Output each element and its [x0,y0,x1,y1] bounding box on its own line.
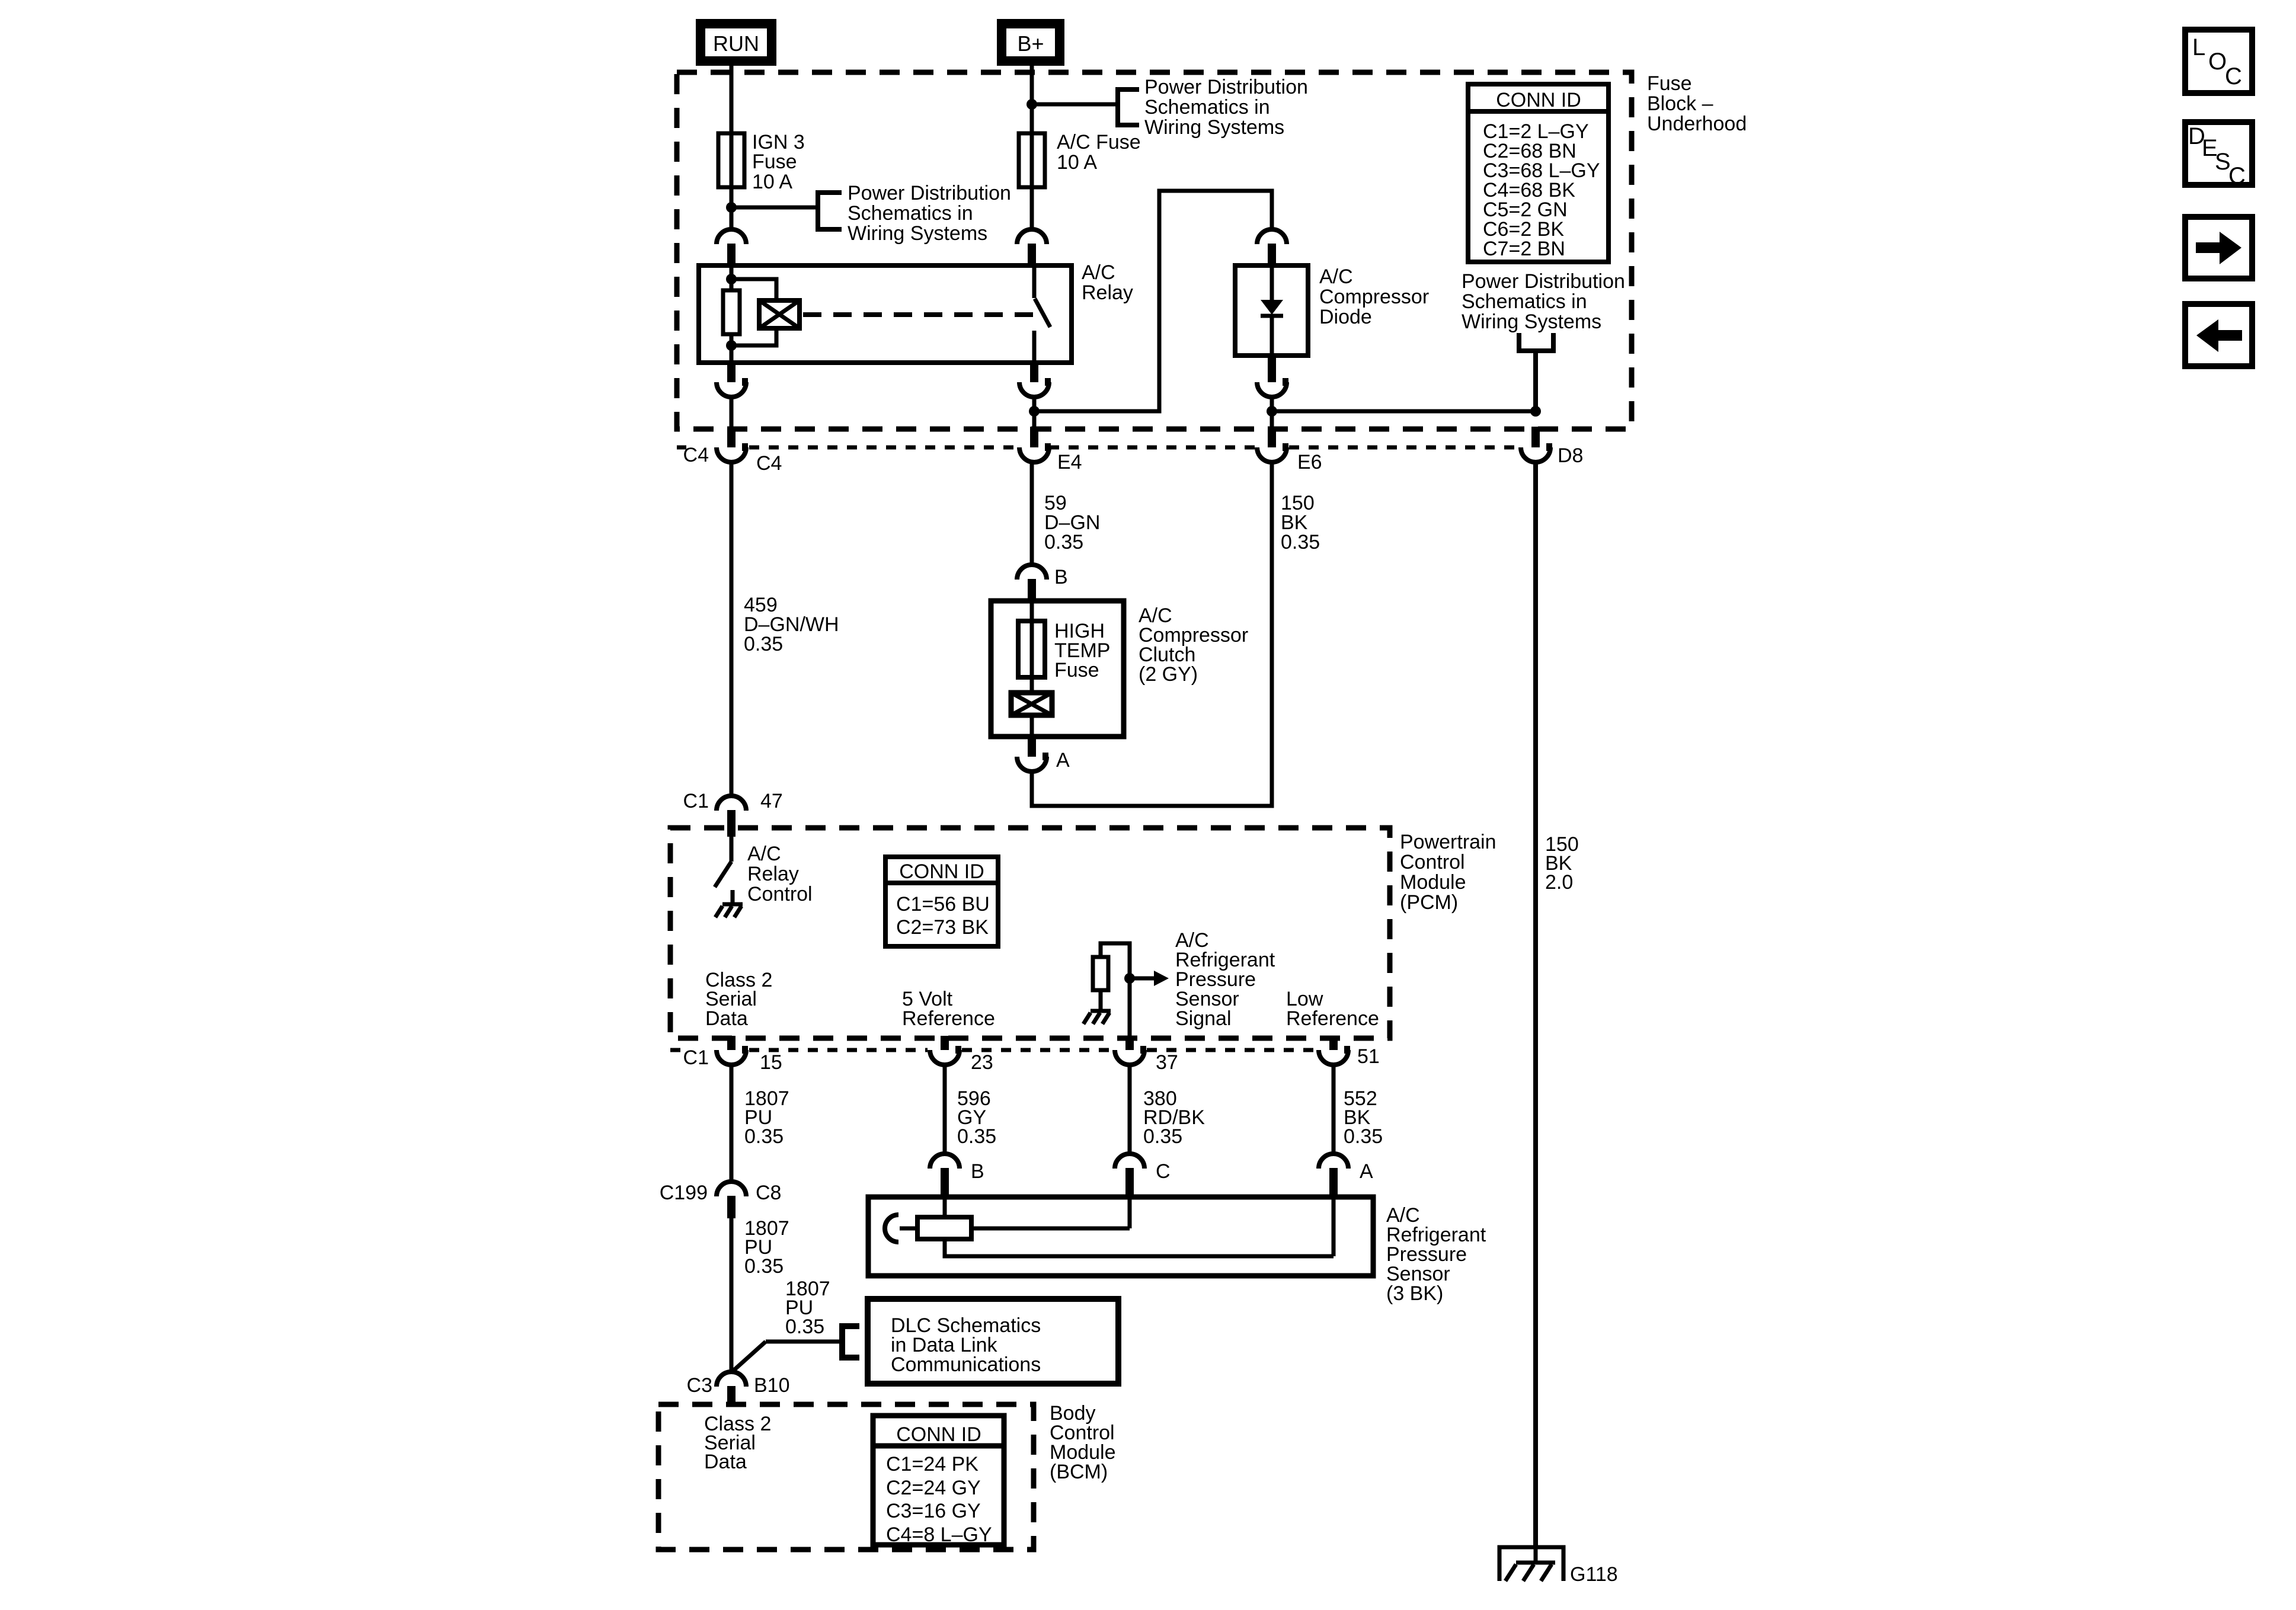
off-page pointer power distribution (D8) [1519,333,1553,411]
class 2 serial data label (PCM) [705,969,772,1030]
BCM label [1050,1402,1116,1483]
C4 connector [717,427,748,462]
svg-text:B: B [1054,566,1068,588]
diode output connector (cup) [1257,354,1288,397]
svg-text:RUN: RUN [713,31,759,56]
wire E4 branch [1032,411,1037,429]
svg-text:A/C: A/C [1319,265,1353,288]
svg-text:A: A [1360,1160,1373,1183]
svg-text:Signal: Signal [1175,1007,1232,1030]
svg-text:10 A: 10 A [1057,151,1097,174]
svg-text:C3=16 GY: C3=16 GY [886,1500,981,1522]
A/C relay label [1082,261,1133,304]
connector cap into diode [1257,229,1287,265]
svg-text:Fuse: Fuse [1647,72,1692,95]
icon DESC [2185,122,2252,189]
svg-text:B+: B+ [1017,31,1044,56]
svg-text:Schematics in: Schematics in [848,202,973,225]
svg-text:L: L [2192,34,2205,60]
wire C4 to C1 [730,462,734,796]
fuse block label [1647,72,1747,135]
junction dot D8 [1530,406,1541,417]
connector C1 15 [717,1036,748,1065]
svg-text:Power Distribution: Power Distribution [1462,270,1625,293]
svg-text:Control: Control [747,883,813,905]
svg-text:Reference: Reference [902,1007,995,1030]
svg-text:Power Distribution: Power Distribution [848,182,1011,204]
fuse A/C [1019,133,1045,187]
high temp fuse [1018,601,1045,693]
ground (relay control) [715,904,743,917]
wire label 1807 PU 0.35 [744,1087,789,1148]
power distribution label (top) [1144,76,1308,139]
terminal RUN [701,24,772,61]
pressure sensor box [868,1197,1373,1276]
svg-text:Underhood: Underhood [1647,113,1747,135]
connector 23 [930,1036,961,1065]
svg-text:Relay: Relay [1082,281,1133,304]
svg-text:Control: Control [1400,851,1465,873]
relay coil branch [731,279,776,345]
wire label 1807 PU 0.35 (2) [744,1217,789,1278]
BCM dashed box [658,1404,1034,1550]
pressure sensor label [1386,1204,1486,1305]
wire label 459 D-GN/WH 0.35 [744,594,839,655]
wire 23 to B [943,1065,947,1154]
wire branch to DLC [731,1342,840,1372]
svg-text:C199: C199 [660,1182,708,1204]
icon arrow right [2185,217,2252,279]
wire diode junction to D8 junction [1272,409,1536,414]
wire C8 to C3 [730,1218,734,1372]
junction dot coil bottom [726,340,737,351]
wire E4 to clutch B [1030,462,1034,565]
A/C relay control switch [715,837,733,904]
power distribution label (left) [848,182,1011,245]
wire RUN to IGN3 fuse [730,66,734,207]
wire label 150 BK 0.35 [1281,492,1320,553]
svg-text:Relay: Relay [747,863,799,885]
power distribution label (D8) [1462,270,1625,333]
relay control dashed line [803,312,1034,317]
svg-text:2.0: 2.0 [1545,871,1573,894]
DLC schematics box [868,1299,1118,1384]
svg-text:0.35: 0.35 [957,1125,996,1148]
svg-text:C4: C4 [683,444,709,466]
C4 connector labels [683,444,782,475]
fuse IGN3 [718,133,744,187]
svg-text:0.35: 0.35 [744,633,783,655]
pressure sensor internals [885,1199,1334,1256]
A connector [1017,737,1048,772]
E6 connector [1257,427,1288,462]
svg-text:C1=56 BU: C1=56 BU [896,893,990,916]
C199 C8 connector [717,1182,746,1218]
wire relay left output to C4 [730,397,734,429]
svg-text:C: C [2228,163,2246,189]
ground (sensor reference) [1083,1011,1111,1024]
svg-text:(3 BK): (3 BK) [1386,1282,1443,1305]
svg-text:CONN ID: CONN ID [899,860,984,883]
relay switch [1034,265,1050,363]
CONN ID table (BCM) [873,1416,1004,1546]
svg-text:C7=2 BN: C7=2 BN [1483,238,1565,260]
relay output connector left (cup) [717,361,748,397]
svg-text:A/C Fuse: A/C Fuse [1057,131,1141,153]
svg-text:B: B [971,1160,984,1183]
connector A (sensor) [1319,1154,1348,1199]
svg-text:D8: D8 [1558,444,1583,467]
ground G118 [1499,1547,1563,1581]
DLC label [891,1314,1041,1376]
svg-text:C2=73 BK: C2=73 BK [896,916,989,939]
wire clutch A to E6 [1032,462,1272,806]
svg-text:Power Distribution: Power Distribution [1144,76,1308,98]
svg-text:10 A: 10 A [752,171,792,193]
svg-text:E6: E6 [1297,451,1322,473]
B connector [1017,565,1047,601]
wire IGN3 to relay connector [730,207,734,230]
svg-text:0.35: 0.35 [785,1315,824,1338]
A/C relay box [699,265,1072,363]
dotted connector line (fuse block row) [677,446,1518,450]
D8 connector [1521,427,1552,462]
svg-text:C2=24 GY: C2=24 GY [886,1477,981,1499]
wire label 380 RD/BK 0.35 [1143,1087,1205,1148]
pressure sensor resistor (PCM internal) [1093,943,1130,1011]
svg-text:CONN ID: CONN ID [1496,89,1581,111]
C3 B10 labels [687,1374,790,1397]
signal arrow [1130,971,1169,986]
wire label 596 GY 0.35 [957,1087,996,1148]
junction dot signal [1124,973,1135,984]
svg-text:0.35: 0.35 [1143,1125,1182,1148]
svg-text:E4: E4 [1057,451,1082,473]
junction dot relay output [1029,406,1040,417]
junction dot B+ [1027,99,1037,110]
svg-text:C4=8 L–GY: C4=8 L–GY [886,1523,992,1546]
low reference label [1286,988,1379,1030]
relay coil symbol [759,300,800,328]
off-page pointer power distribution (top) [1118,89,1139,125]
connector 51 [1319,1036,1350,1065]
svg-text:C3: C3 [687,1374,712,1397]
diode symbol [1261,265,1283,356]
connector cap into relay (switch side) [1017,229,1047,265]
svg-text:0.35: 0.35 [1281,531,1320,553]
C1 15 labels [683,1046,782,1074]
svg-text:A/C: A/C [1082,261,1115,284]
wire B+ to A/C fuse [1030,66,1034,230]
class 2 serial data label (BCM) [704,1413,771,1473]
wire 15 to C199 [730,1065,734,1182]
off-page pointer DLC [842,1326,859,1358]
svg-text:Schematics in: Schematics in [1144,96,1270,119]
junction dot IGN3 [726,202,737,213]
wire 51 to A [1332,1065,1336,1154]
wire label 552 BK 0.35 [1344,1087,1383,1148]
PCM dashed box [670,828,1390,1038]
IGN3 fuse label [752,131,805,193]
svg-text:Compressor: Compressor [1319,286,1429,308]
C199 C8 labels [660,1182,782,1204]
connector C (sensor) [1115,1154,1144,1199]
svg-text:37: 37 [1156,1051,1178,1074]
svg-text:C4: C4 [756,452,782,475]
svg-text:Fuse: Fuse [752,151,797,173]
PCM label [1400,831,1496,914]
svg-text:C1: C1 [683,1046,709,1069]
wire label 150 BK 2.0 [1545,833,1579,894]
svg-text:Schematics in: Schematics in [1462,290,1587,313]
wire label 1807 PU 0.35 (3) [785,1278,830,1338]
svg-text:23: 23 [971,1051,993,1074]
svg-text:Module: Module [1400,871,1466,894]
svg-text:Communications: Communications [891,1353,1041,1376]
dotted connector line (PCM row) [670,1048,1316,1052]
fuse block underhood dashed box [677,72,1632,429]
icon arrow left [2185,304,2252,366]
A/C relay control label [747,843,813,905]
icon LOC [2185,30,2252,93]
svg-text:C: C [2225,63,2242,89]
svg-text:Wiring Systems: Wiring Systems [1144,116,1284,139]
svg-text:A: A [1056,749,1070,772]
C3 B10 connector [717,1372,746,1406]
CONN ID table (fuse block) [1468,84,1609,262]
wire diode output to junction [1270,397,1274,411]
svg-text:G118: G118 [1570,1563,1618,1586]
svg-text:C1=24 PK: C1=24 PK [886,1453,978,1475]
wire 37 to C [1128,1065,1132,1154]
svg-text:Wiring Systems: Wiring Systems [848,222,987,245]
svg-text:C8: C8 [756,1182,781,1204]
svg-text:C: C [1156,1160,1171,1183]
junction dot coil top [726,274,737,284]
wire 37 inside PCM [1128,978,1132,1038]
relay output connector right (cup) [1019,361,1051,397]
svg-text:A/C: A/C [747,843,781,865]
clutch coil symbol [1011,693,1052,737]
svg-text:0.35: 0.35 [1344,1125,1383,1148]
svg-text:51: 51 [1357,1045,1380,1068]
svg-text:Fuse: Fuse [1054,659,1099,681]
wire B+ junction to pointer [1032,103,1118,107]
svg-text:(BCM): (BCM) [1050,1461,1108,1483]
wire D8 to G118 [1533,462,1538,1548]
junction dot diode output [1267,406,1277,417]
A/C fuse label [1057,131,1141,174]
connector 37 [1115,1036,1146,1065]
svg-text:Diode: Diode [1319,306,1372,328]
svg-text:(2 GY): (2 GY) [1139,663,1198,686]
svg-text:Data: Data [704,1451,747,1473]
svg-text:15: 15 [760,1051,782,1074]
svg-text:Reference: Reference [1286,1007,1379,1030]
C1 47 labels [683,790,783,812]
svg-text:CONN ID: CONN ID [896,1423,981,1446]
svg-text:O: O [2208,49,2227,75]
wire relay output to diode top [1034,191,1272,411]
svg-text:B10: B10 [754,1374,790,1397]
svg-text:Wiring Systems: Wiring Systems [1462,311,1601,333]
connector cap into relay (coil side) [717,229,746,265]
svg-text:C1: C1 [683,790,709,812]
A/C compressor clutch box [991,601,1124,737]
A/C compressor clutch label [1139,604,1248,686]
A/C compressor diode box [1235,265,1308,356]
high temp fuse label [1054,620,1110,681]
relay coil resistor [723,265,740,363]
A/C compressor diode label [1319,265,1429,328]
svg-text:0.35: 0.35 [1044,531,1083,553]
svg-text:Data: Data [705,1007,748,1030]
wire E6 branch [1270,411,1274,429]
svg-text:Block –: Block – [1647,92,1713,115]
off-page pointer power distribution (left) [818,193,842,229]
wire junction to pointer (left) [731,206,818,210]
svg-text:47: 47 [760,790,783,812]
wire relay right output to junction [1032,397,1037,411]
terminal B+ [1002,24,1060,61]
C1 47 connector [717,796,746,837]
E4 connector [1019,427,1051,462]
svg-text:(PCM): (PCM) [1400,891,1458,914]
wire label 59 D-GN 0.35 [1044,492,1100,553]
signal label [1175,929,1275,1030]
connector B (sensor) [930,1154,960,1199]
5 volt reference label [902,988,995,1030]
svg-text:0.35: 0.35 [744,1125,784,1148]
svg-text:0.35: 0.35 [744,1255,784,1278]
CONN ID table (PCM) [885,857,998,946]
svg-text:Powertrain: Powertrain [1400,831,1496,853]
